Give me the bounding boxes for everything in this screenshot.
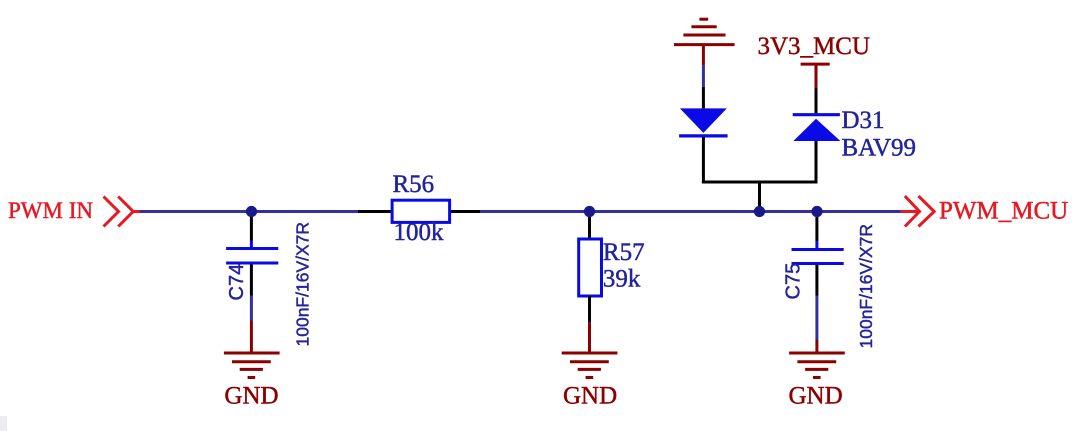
svg-text:39k: 39k — [603, 266, 641, 293]
capacitor C74 — [226, 212, 278, 321]
svg-text:100nF/16V/X7R: 100nF/16V/X7R — [856, 224, 876, 349]
wire: diode bar to node C — [758, 182, 761, 212]
svg-text:PWM IN: PWM IN — [8, 198, 93, 223]
svg-text:PWM_MCU: PWM_MCU — [939, 197, 1068, 224]
wire: node C to node D — [760, 210, 818, 213]
resistor R56 — [358, 200, 480, 222]
svg-text:3V3_MCU: 3V3_MCU — [758, 33, 871, 60]
svg-text:BAV99: BAV99 — [842, 135, 917, 162]
svg-text:R57: R57 — [603, 239, 645, 266]
capacitor C75 — [792, 212, 844, 341]
wire: R56 right pin to node B — [480, 210, 590, 213]
wire: diode bottoms connecting bar — [702, 181, 817, 184]
wire: node A to R56 left pin — [252, 210, 359, 213]
junction node A — [246, 206, 257, 217]
wire: node B to node C — [590, 210, 760, 213]
power port 3V3_MCU bar symbol — [801, 64, 830, 88]
svg-text:D31: D31 — [842, 107, 885, 134]
wire: node D to PWM_MCU port — [817, 210, 901, 213]
junction node B — [584, 206, 595, 217]
svg-text:GND: GND — [563, 383, 617, 410]
svg-text:GND: GND — [224, 383, 278, 410]
svg-text:R56: R56 — [393, 171, 435, 198]
svg-text:C75: C75 — [783, 263, 805, 300]
ground GND at C74 — [224, 321, 280, 378]
wire: top ground to diode D31A anode — [702, 65, 705, 86]
ground (inverted, top) — [674, 19, 735, 65]
junction node C — [754, 206, 765, 217]
wire: PWM IN to node A — [140, 210, 252, 213]
svg-text:100nF/16V/X7R: 100nF/16V/X7R — [293, 222, 313, 347]
port PWM IN label — [8, 198, 93, 223]
port PWM_MCU chevron symbol — [901, 196, 935, 227]
ground GND at R57 — [562, 322, 618, 377]
resistor R57 — [579, 212, 602, 323]
junction node D — [811, 206, 822, 217]
port PWM IN chevron symbol — [104, 197, 141, 227]
svg-text:GND: GND — [789, 383, 843, 410]
svg-text:C74: C74 — [226, 264, 248, 301]
ground GND at C75 — [789, 340, 845, 378]
diode D31A (left half of BAV99) — [679, 87, 728, 184]
svg-text:100k: 100k — [394, 219, 445, 246]
stray mark bottom-left corner — [0, 416, 7, 431]
diode D31B (right half of BAV99) — [793, 88, 841, 184]
